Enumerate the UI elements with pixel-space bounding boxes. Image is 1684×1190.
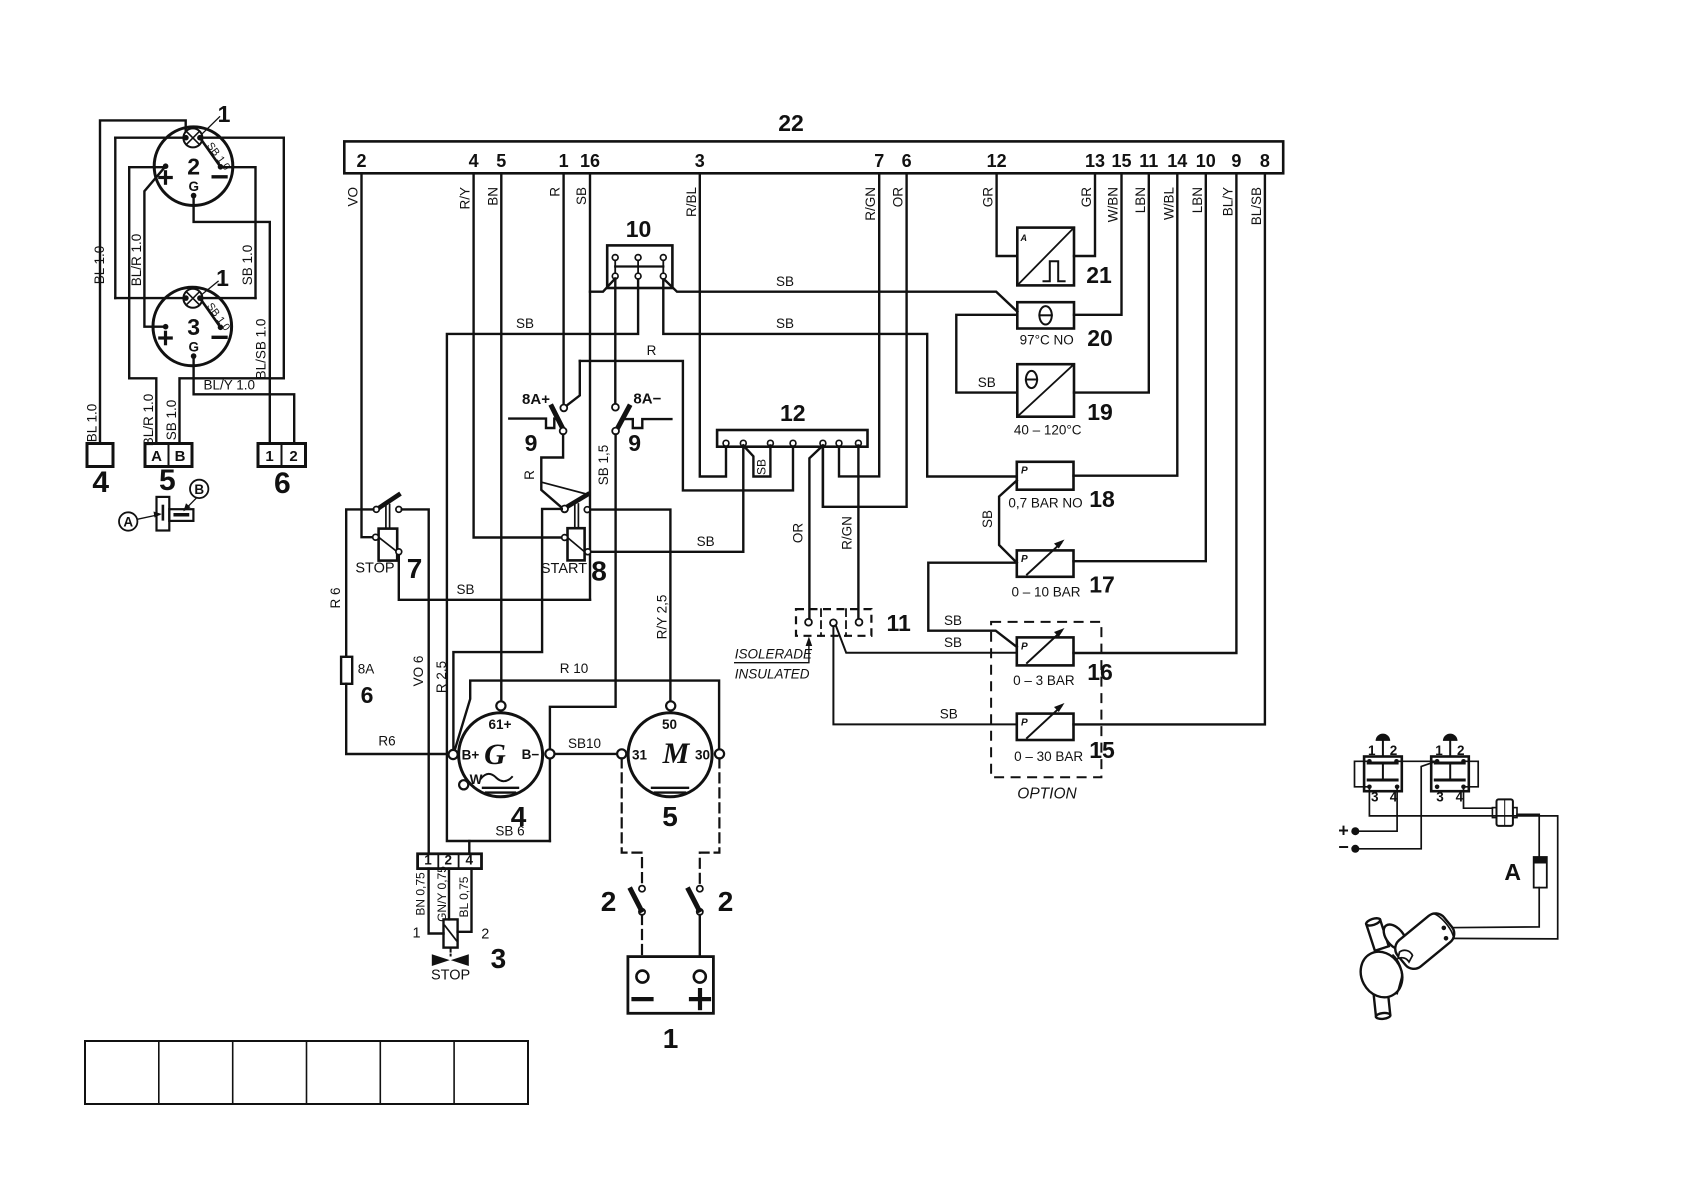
svg-text:GR: GR: [1079, 187, 1094, 208]
svg-text:3: 3: [187, 314, 200, 340]
svg-text:9: 9: [1231, 151, 1241, 171]
wire SB ground bus left segment (B- to box10 middle pin): [447, 279, 638, 842]
svg-text:SB: SB: [776, 316, 794, 331]
svg-text:SB: SB: [456, 582, 474, 597]
wire R10 B+ to motor 30: [455, 681, 719, 750]
svg-text:SB: SB: [755, 459, 769, 475]
svg-text:STOP: STOP: [355, 561, 394, 577]
svg-text:BL/R 1.0: BL/R 1.0: [129, 234, 144, 287]
svg-text:3: 3: [1436, 790, 1444, 805]
wire BL 0,75 branch to connector 3 pin4: [468, 841, 470, 854]
svg-text:0,7 BAR NO: 0,7 BAR NO: [1008, 496, 1082, 511]
wire SB bus16 down (to stop switch SB): [589, 173, 591, 600]
svg-text:12: 12: [987, 151, 1007, 171]
svg-text:SB: SB: [776, 274, 794, 289]
circle B: [190, 480, 208, 498]
svg-text:R/GN: R/GN: [863, 187, 878, 221]
svg-text:B: B: [194, 482, 204, 497]
wire R 2,5 B+ to start left contact: [453, 509, 561, 750]
svg-text:SB10: SB10: [568, 736, 601, 751]
svg-text:1: 1: [265, 448, 273, 465]
wire R/Y bus4 to start switch: [474, 173, 561, 537]
svg-text:16: 16: [580, 151, 600, 171]
svg-text:31: 31: [632, 748, 648, 763]
wire BL/SB bus8 to sensor 15 right: [1074, 173, 1265, 724]
svg-text:R/Y: R/Y: [458, 187, 473, 210]
svg-text:P: P: [1021, 466, 1028, 477]
svg-text:2: 2: [601, 886, 617, 917]
leader B: [185, 498, 197, 510]
minus terminal: [1351, 845, 1359, 853]
svg-text:STOP: STOP: [431, 968, 470, 984]
R rail to connector 12 pin4: [580, 361, 793, 491]
wire BN bus5 to generator 61+: [500, 173, 502, 701]
svg-text:2: 2: [1457, 743, 1465, 758]
svg-text:−: −: [1338, 837, 1349, 857]
wire lamp chain gauge2 horizontal: [115, 136, 283, 138]
svg-text:30: 30: [695, 748, 710, 763]
svg-text:BL/R 1.0: BL/R 1.0: [141, 394, 156, 447]
battery switch 2 right: [697, 886, 703, 892]
wire stop left contact to fuse 6 and R6 to B+: [346, 509, 373, 656]
svg-text:P: P: [1021, 642, 1028, 653]
svg-text:B+: B+: [462, 748, 480, 763]
svg-text:R 10: R 10: [560, 661, 589, 676]
wire SB box10 right pin to sensor 20: [663, 279, 1017, 312]
svg-text:2: 2: [481, 927, 489, 943]
svg-text:SB 1.0: SB 1.0: [240, 245, 255, 286]
svg-text:1: 1: [424, 853, 432, 868]
wire BL 1.0 from connector 4 up to gauge 2 lamp: [100, 120, 186, 443]
svg-text:4: 4: [1456, 790, 1464, 805]
svg-text:15: 15: [1089, 737, 1115, 763]
battery switch 2 left: [639, 886, 645, 892]
svg-text:6: 6: [274, 467, 291, 500]
wire BL 0,75 pin4 to solenoid: [458, 869, 472, 932]
svg-text:15: 15: [1111, 151, 1131, 171]
svg-text:5: 5: [496, 151, 506, 171]
left bracket wire: [1355, 761, 1370, 787]
svg-text:1: 1: [1435, 743, 1443, 758]
svg-text:GR: GR: [981, 187, 996, 208]
wire SB jumper pins 2-3 of 12: [743, 446, 770, 477]
svg-text:BL/SB: BL/SB: [1249, 187, 1264, 225]
wire GN/Y 0,75 pin2 to solenoid: [448, 869, 450, 920]
svg-text:14: 14: [1167, 151, 1187, 171]
wire SB box10 right pin to sensor 18: [663, 279, 1017, 477]
svg-text:P: P: [1021, 554, 1028, 565]
rocker switch left (bilge): [1364, 757, 1402, 792]
svg-text:7: 7: [874, 151, 884, 171]
svg-text:0 – 3 BAR: 0 – 3 BAR: [1013, 673, 1075, 688]
svg-text:BL 1.0: BL 1.0: [85, 404, 100, 443]
wire BL/Y gauge3 G to connector 6 pin2: [194, 359, 295, 444]
wire R bus1 to switch 9 plus upper contact: [562, 173, 564, 404]
svg-text:5: 5: [662, 801, 678, 832]
svg-text:11: 11: [887, 610, 912, 636]
svg-text:R/GN: R/GN: [840, 516, 855, 550]
wire R from 8A+ upper contact to R rail: [567, 361, 580, 406]
switch 9 (8A+): [509, 419, 558, 428]
wire VO 6 stop right contact to connector 3 pin1: [402, 509, 429, 853]
wire R/BL bus3 to connector 12 pin1: [700, 173, 726, 476]
wire SB6 B- down to junction: [549, 758, 551, 842]
wire BL/R gauge2 plus to connector 5 A: [129, 167, 163, 443]
wire SB bevel into box 10: [590, 279, 615, 292]
wire GR bus12 to sensor 21 left: [997, 173, 1018, 256]
leader A: [137, 515, 159, 520]
svg-text:2: 2: [289, 448, 297, 465]
svg-text:12: 12: [780, 400, 806, 426]
gauge 2 (instrument): [154, 127, 233, 206]
bus bar 22: [344, 141, 1283, 173]
svg-text:BL 1.0: BL 1.0: [92, 246, 107, 285]
wire box10 left pin to switch 9 minus: [614, 279, 616, 405]
stop valve symbol: [432, 954, 450, 966]
sensor 17 (0-10 BAR pressure sender): [1017, 550, 1074, 576]
svg-text:INSULATED: INSULATED: [735, 667, 810, 682]
svg-text:20: 20: [1087, 325, 1113, 351]
svg-text:SB: SB: [980, 510, 995, 528]
svg-text:BL/Y: BL/Y: [1220, 187, 1235, 216]
svg-text:97°C NO: 97°C NO: [1020, 333, 1074, 348]
svg-text:SB 1.0: SB 1.0: [164, 400, 179, 441]
inline connector: [1492, 808, 1496, 818]
svg-text:10: 10: [626, 216, 652, 242]
dashed wire left switch to battery minus: [641, 915, 643, 957]
wire R 8A+ lower contact to start contact: [541, 434, 563, 508]
wire OR pin5 of 12 to connector 11: [809, 446, 823, 620]
svg-text:2: 2: [356, 151, 366, 171]
svg-text:P: P: [1021, 718, 1028, 729]
wire SB 1,5 8A- to B-: [550, 434, 616, 750]
svg-text:2: 2: [1390, 743, 1398, 758]
svg-text:8A: 8A: [358, 662, 375, 677]
generator 4 (G): [459, 713, 543, 797]
svg-text:2: 2: [718, 886, 734, 917]
svg-text:LBN: LBN: [1190, 187, 1205, 213]
svg-text:W/BN: W/BN: [1106, 187, 1121, 222]
svg-text:R 6: R 6: [328, 587, 343, 608]
svg-text:4: 4: [92, 466, 109, 499]
wire gauge2 plus diagonal to gauge3 plus: [144, 166, 165, 327]
svg-text:3: 3: [1371, 790, 1379, 805]
svg-text:SB: SB: [978, 375, 996, 390]
wire gauge2 lamp left down to gauge3 lamp left: [114, 138, 116, 298]
svg-text:BN 0,75: BN 0,75: [414, 872, 428, 916]
sensor 18 (0,7 BAR NO oil pressure switch): [1017, 462, 1074, 490]
wire SB connector 11 middle to sensor 15: [833, 626, 1016, 724]
svg-text:6: 6: [361, 682, 374, 708]
fuse A: [1534, 857, 1547, 888]
svg-text:G: G: [188, 340, 199, 355]
svg-text:M: M: [662, 737, 691, 770]
svg-text:VO: VO: [346, 187, 361, 207]
svg-text:B: B: [175, 448, 186, 465]
svg-text:R/Y 2,5: R/Y 2,5: [655, 595, 670, 640]
wire LBN bus10 to sensor 17 right: [1074, 173, 1206, 561]
wire linking switches: [1397, 760, 1438, 762]
stop switch 7: [379, 529, 398, 561]
wire fuse to pump motor: [1447, 888, 1540, 928]
svg-text:SB: SB: [944, 613, 962, 628]
sensor 16 (0-3 BAR pressure sender): [1017, 637, 1074, 665]
svg-text:A: A: [123, 515, 133, 530]
wire R/Y 2,5 start right contact to motor 50: [590, 510, 670, 702]
sensor 21 (tachometer sender): [1017, 228, 1074, 286]
svg-text:8A+: 8A+: [522, 391, 550, 408]
svg-text:START: START: [541, 561, 587, 577]
dashed wire motor30 to right switch 2: [700, 758, 720, 885]
wire gauge2 lamp right down SB to connector 5 B: [180, 138, 284, 444]
OPTION dashed box: [991, 622, 1101, 777]
wire SB10 B- to motor 31: [554, 753, 617, 755]
wire LBN bus11 to sensor 19 right: [1074, 173, 1149, 392]
wire BL/Y bus9 to sensor 16 right: [1074, 173, 1237, 653]
wire SB connector 11 middle to sensor 16: [836, 625, 1017, 653]
svg-text:OPTION: OPTION: [1017, 786, 1077, 803]
svg-text:21: 21: [1086, 262, 1112, 288]
svg-text:OR: OR: [791, 523, 806, 544]
wire SB stop line: [399, 555, 590, 600]
svg-text:BL/SB 1.0: BL/SB 1.0: [253, 319, 268, 380]
wire SB start switch to pin2 of 12: [590, 446, 743, 552]
svg-text:61+: 61+: [489, 717, 512, 732]
wire VO bus2 to stop switch: [362, 173, 373, 537]
wire OR bus6 to connector 12 pin5: [823, 173, 907, 507]
svg-text:13: 13: [1085, 151, 1105, 171]
wire SB sensor20 left to sensor19 left: [956, 315, 1017, 393]
legend table: [85, 1041, 528, 1104]
connector 3 strip (1 2 4): [418, 854, 482, 869]
svg-text:R6: R6: [378, 734, 395, 749]
wire SB 1.0 lamp to minus inside gauge 3: [200, 298, 221, 327]
svg-text:G: G: [484, 738, 506, 771]
svg-text:9: 9: [525, 430, 538, 456]
wire right switch pin4 to connector: [1464, 789, 1493, 808]
wire SB gauge2 minus to gauge3 lamp right: [222, 167, 256, 298]
svg-text:1: 1: [663, 1023, 679, 1054]
svg-text:6: 6: [902, 151, 912, 171]
svg-text:2: 2: [187, 154, 200, 180]
wire gauge3 lamp horizontal: [115, 297, 255, 299]
wire W/BL bus14 to sensor 18 right: [1074, 173, 1178, 475]
svg-text:19: 19: [1087, 399, 1113, 425]
circle A: [119, 512, 137, 530]
svg-text:0 – 30 BAR: 0 – 30 BAR: [1014, 749, 1083, 764]
svg-text:9: 9: [628, 430, 641, 456]
bilge pump sketch: [1353, 909, 1459, 1020]
svg-text:SB 1,5: SB 1,5: [596, 445, 611, 486]
wire SB 1.0 lamp to minus inside gauge 2: [200, 138, 221, 167]
rocker switch right (bilge): [1431, 757, 1469, 792]
gauge 3 (instrument): [153, 287, 232, 366]
svg-text:4: 4: [469, 151, 479, 171]
svg-text:OR: OR: [891, 187, 906, 208]
svg-text:16: 16: [1087, 659, 1113, 685]
svg-text:8A−: 8A−: [633, 391, 661, 408]
wire BL/SB gauge2 G to connector 6 pin1: [194, 198, 270, 444]
svg-text:BL 0,75: BL 0,75: [457, 876, 471, 917]
svg-text:1: 1: [412, 926, 420, 942]
svg-text:A: A: [1020, 233, 1028, 243]
svg-text:BL/Y 1.0: BL/Y 1.0: [204, 378, 256, 393]
connector 4: [87, 444, 113, 467]
connector block 10: [607, 245, 672, 288]
svg-text:22: 22: [778, 110, 804, 136]
svg-text:SB: SB: [944, 635, 962, 650]
svg-text:1: 1: [559, 151, 569, 171]
svg-text:SB: SB: [697, 534, 715, 549]
leader to lamp 1 (gauge3): [203, 281, 219, 294]
svg-text:A: A: [1504, 859, 1521, 885]
wire W/BN bus15 to sensor 20 right: [1074, 173, 1122, 314]
stop solenoid 3: [444, 919, 458, 947]
svg-text:ISOLERADE: ISOLERADE: [735, 647, 813, 662]
svg-text:5: 5: [159, 464, 176, 497]
svg-text:VO 6: VO 6: [411, 656, 426, 687]
start switch 8: [568, 528, 585, 560]
svg-text:4: 4: [511, 801, 527, 832]
switch 9 (8A-): [625, 419, 672, 428]
svg-text:R: R: [522, 470, 537, 480]
svg-text:SB: SB: [574, 187, 589, 205]
svg-text:7: 7: [407, 553, 423, 584]
wire right switch to battery plus: [699, 915, 701, 957]
leader to lamp 1 (gauge2): [203, 117, 220, 134]
connector 5 (A B): [145, 444, 192, 467]
svg-text:11: 11: [1139, 151, 1158, 171]
sender symbol below 5: [157, 497, 170, 531]
svg-text:BN: BN: [485, 187, 500, 206]
sensor 15 (0-30 BAR pressure sender): [1017, 714, 1074, 740]
svg-text:R/BL: R/BL: [684, 187, 699, 218]
svg-text:W/BL: W/BL: [1161, 187, 1176, 220]
fuse 6 (8A): [341, 657, 352, 684]
svg-text:4: 4: [466, 853, 474, 868]
svg-text:G: G: [188, 179, 199, 194]
svg-text:8: 8: [591, 556, 607, 587]
right bracket wire: [1464, 761, 1479, 787]
svg-text:R: R: [647, 343, 657, 358]
wire pump motor to switch pin3: [1369, 789, 1557, 939]
svg-text:2: 2: [445, 853, 453, 868]
svg-text:1: 1: [216, 265, 229, 291]
wire SB sensor17 left to sensor16 left: [928, 563, 1017, 647]
connector strip 12: [717, 430, 867, 447]
svg-text:A: A: [151, 448, 162, 465]
svg-text:1: 1: [1368, 743, 1376, 758]
svg-text:40 – 120°C: 40 – 120°C: [1014, 423, 1082, 438]
wire BN 0,75 pin1 to solenoid: [429, 869, 444, 934]
svg-text:3: 3: [491, 943, 507, 974]
battery 1: [628, 957, 714, 1014]
svg-text:R 2,5: R 2,5: [434, 661, 449, 693]
svg-text:50: 50: [662, 717, 677, 732]
svg-text:B−: B−: [522, 747, 540, 762]
wire pin5 of 12 up to bus6 (OR): [822, 446, 824, 507]
svg-text:SB: SB: [516, 316, 534, 331]
svg-text:8: 8: [1260, 151, 1270, 171]
sensor 20 (97C NO thermal switch): [1017, 302, 1074, 328]
connector 6 (1 2): [258, 444, 306, 467]
svg-text:SB: SB: [940, 707, 958, 722]
connector 11 (dashed): [796, 609, 871, 636]
svg-text:17: 17: [1089, 572, 1115, 598]
svg-text:LBN: LBN: [1133, 187, 1148, 213]
wire SB sensor18 to sensor17 jumper: [999, 481, 1017, 563]
dashed wire motor31 to left switch 2: [622, 758, 642, 885]
wire GR bus13 to sensor 21 right: [1074, 173, 1095, 256]
svg-text:0 – 10 BAR: 0 – 10 BAR: [1011, 585, 1080, 600]
svg-text:10: 10: [1196, 151, 1216, 171]
plus terminal: [1351, 827, 1359, 835]
wire R/GN pin7 of 12 to connector 11: [857, 446, 859, 620]
svg-text:R: R: [548, 187, 563, 197]
svg-text:3: 3: [695, 151, 705, 171]
wire connector to fuse A: [1517, 814, 1539, 857]
svg-text:GN/Y 0,75: GN/Y 0,75: [435, 866, 449, 922]
svg-text:18: 18: [1089, 486, 1115, 512]
sensor 19 (40-120C temp sender): [1017, 364, 1074, 417]
svg-text:1: 1: [218, 101, 231, 127]
wire R/GN bus7 to connector 12 pin6: [839, 173, 879, 476]
starter motor 5 (M): [628, 713, 712, 797]
